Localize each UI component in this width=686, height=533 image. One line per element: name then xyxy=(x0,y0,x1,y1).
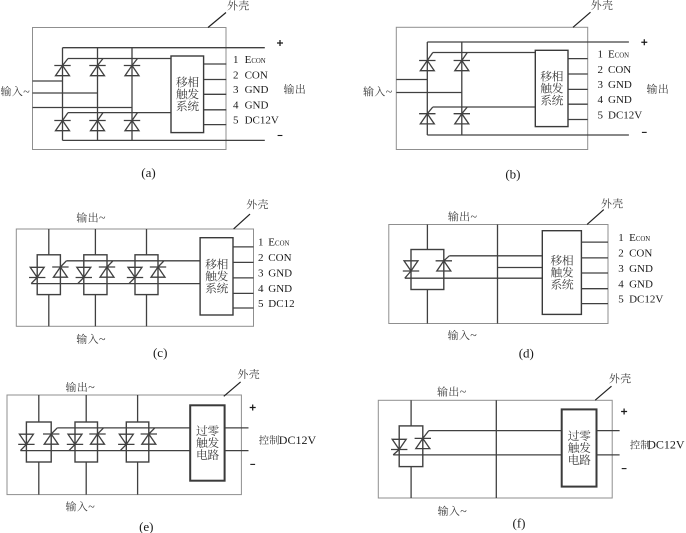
module box pair 2 (e) xyxy=(75,422,98,462)
thyristor reverse VT1 (e) xyxy=(18,434,34,450)
wire top stub pair 2 (c) xyxy=(94,229,96,255)
svg-text:5: 5 xyxy=(258,298,264,310)
svg-text:~: ~ xyxy=(99,332,106,346)
figure (a): three-phase bridge rectifier module xyxy=(1,0,305,180)
module box pair 3 (c) xyxy=(135,255,158,295)
svg-text:5: 5 xyxy=(233,114,239,126)
wire bottom stub pair 3 (e) xyxy=(137,462,139,495)
svg-text:DC12V: DC12V xyxy=(647,438,685,452)
thyristor VT2 (b) xyxy=(454,107,470,124)
pin 5 lead xyxy=(568,119,588,121)
thyristor forward VT4 (e) xyxy=(89,428,105,444)
label input~ (c) xyxy=(77,334,87,344)
svg-text:~: ~ xyxy=(460,504,467,518)
svg-text:2: 2 xyxy=(618,248,624,260)
label output~ (f) xyxy=(437,386,447,396)
wire gate line lower (d) xyxy=(405,277,543,279)
wire input phase B (a) xyxy=(33,92,98,94)
wire top stub pair 3 (c) xyxy=(146,229,148,255)
svg-text:3: 3 xyxy=(598,79,604,91)
svg-text:5: 5 xyxy=(618,293,624,305)
wire bottom stub pair 2 (e) xyxy=(85,462,87,495)
wire phase column 1 (a) xyxy=(62,48,64,141)
svg-text:GND: GND xyxy=(608,94,632,106)
wire column 2 (b) xyxy=(461,42,463,135)
wire upper gate bus (b) xyxy=(433,52,536,54)
wire bottom stub pair 3 (c) xyxy=(146,295,148,327)
svg-text:CON: CON xyxy=(245,69,268,81)
thyristor VT1 (b) xyxy=(419,53,435,71)
terminal + (e) xyxy=(250,405,256,411)
label waike (a) xyxy=(227,0,237,10)
svg-text:2: 2 xyxy=(233,69,239,81)
svg-text:DC12V: DC12V xyxy=(608,109,642,121)
wire top stub pair 1 (e) xyxy=(38,395,40,422)
label input~ (f) xyxy=(438,506,448,516)
module box pair 1 (c) xyxy=(37,255,60,295)
wire control - line (e) xyxy=(225,450,249,452)
thyristor forward VT2 (c) xyxy=(52,261,68,277)
trigger block U1 (f) 过零触发电路 xyxy=(562,409,597,486)
thyristor forward VT6 (e) xyxy=(141,428,157,444)
enclosure leader line (f) xyxy=(595,386,611,400)
pin 5 lead xyxy=(581,303,608,305)
thyristor VT2 (a) xyxy=(124,113,140,131)
label output~ (c) xyxy=(77,212,87,222)
svg-text:GND: GND xyxy=(245,84,269,96)
label output (a) xyxy=(284,84,294,94)
pin 3 lead xyxy=(204,93,227,95)
svg-text:(f): (f) xyxy=(513,515,526,530)
trigger block U1 (b) 移相触发系统 xyxy=(535,50,568,126)
enclosure leader line (a) xyxy=(208,13,226,28)
wire mid line (d) xyxy=(498,267,543,269)
svg-text:~: ~ xyxy=(460,385,467,399)
trigger block U1 (e) 过零触发电路 xyxy=(190,405,224,480)
pin 1 lead xyxy=(204,63,227,65)
wire phase column 2 (a) xyxy=(97,48,99,141)
svg-text:4: 4 xyxy=(598,94,604,106)
figure (b): single-phase bridge rectifier module xyxy=(363,0,668,182)
trigger block U1 (d) 移相触发系统 xyxy=(542,231,581,315)
svg-text:GND: GND xyxy=(268,283,292,295)
svg-text:GND: GND xyxy=(268,268,292,280)
terminal - (a) xyxy=(278,135,283,137)
figure (e): three-phase AC switch module, zero-crossing trigger xyxy=(7,369,316,533)
svg-text:5: 5 xyxy=(598,109,604,121)
wire top stub pair 1 (c) xyxy=(48,229,50,255)
wire gate line upper (d) xyxy=(449,255,542,257)
wire input phase A (a) xyxy=(33,80,63,82)
figure (d): single-phase AC switch module, phase-shift trigger xyxy=(389,198,664,360)
pin 1 lead xyxy=(233,246,254,248)
thyristor forward VT2 (f) xyxy=(415,431,431,449)
terminal - (e) xyxy=(250,463,255,465)
thyristor VT3 (b) xyxy=(454,53,470,71)
thyristor VT3 (a) xyxy=(89,59,105,76)
wire bottom stub pair 2 (c) xyxy=(94,295,96,327)
svg-text:(a): (a) xyxy=(141,165,155,180)
terminal + (b) xyxy=(641,39,647,45)
terminal - (b) xyxy=(642,131,647,133)
svg-text:DC12: DC12 xyxy=(268,298,294,310)
label control DC12V (e) xyxy=(259,435,269,445)
pin 1 lead xyxy=(568,58,588,60)
svg-text:DC12V: DC12V xyxy=(245,114,279,126)
wire bottom stub pair 1 (c) xyxy=(48,295,50,327)
svg-text:~: ~ xyxy=(23,84,30,98)
svg-text:~: ~ xyxy=(386,85,393,99)
svg-text:~: ~ xyxy=(471,210,478,224)
terminal - (f) xyxy=(622,468,627,470)
pin 2 lead xyxy=(233,261,254,263)
thyristor reverse VT5 (e) xyxy=(118,434,134,450)
module box pair (d) xyxy=(411,250,444,290)
label input~ (e) xyxy=(66,501,76,511)
enclosure leader line (b) xyxy=(573,12,591,27)
svg-text:~: ~ xyxy=(88,380,95,394)
trigger block U1 (a) 移相触发系统 xyxy=(171,56,204,133)
enclosure box (c) xyxy=(16,229,253,326)
wire phase column 3 (a) xyxy=(131,48,133,141)
svg-text:CON: CON xyxy=(629,248,652,260)
svg-text:GND: GND xyxy=(629,279,653,291)
module box pair (f) xyxy=(399,426,423,467)
enclosure box (d) xyxy=(389,225,608,324)
thyristor forward VT6 (c) xyxy=(150,261,166,277)
wire control + line (f) xyxy=(597,430,620,432)
wire + rail (a) xyxy=(63,47,265,49)
enclosure box (e) xyxy=(7,395,241,495)
svg-text:1: 1 xyxy=(618,232,624,244)
svg-text:1: 1 xyxy=(258,237,264,249)
pin 3 lead xyxy=(233,277,254,279)
thyristor VT4 (b) xyxy=(419,107,435,124)
pin 3 lead xyxy=(581,272,608,274)
wire input line 2 (b) xyxy=(396,92,462,94)
wire bottom stub pair 1 (e) xyxy=(38,462,40,495)
svg-text:~: ~ xyxy=(99,211,106,225)
svg-text:2: 2 xyxy=(258,252,264,264)
trigger block U1 (c) 移相触发系统 xyxy=(200,238,233,315)
svg-text:3: 3 xyxy=(258,268,264,280)
terminal + (a) xyxy=(277,40,283,46)
label input (a) xyxy=(1,86,11,96)
svg-text:(d): (d) xyxy=(519,346,534,361)
pin 4 lead xyxy=(233,292,254,294)
figure (c): three-phase AC switch module, phase-shift trigger xyxy=(16,199,294,360)
wire + rail (b) xyxy=(427,41,629,43)
label waike (c) xyxy=(247,199,257,209)
wire upper gate bus (e) xyxy=(57,427,190,429)
wire top stub (d) xyxy=(426,225,428,250)
wire gate line lower (f) xyxy=(393,454,562,456)
wire input phase C (a) xyxy=(33,107,133,109)
svg-text:~: ~ xyxy=(88,500,95,514)
wire top stub (f) xyxy=(410,400,412,426)
svg-text:1: 1 xyxy=(233,54,239,66)
thyristor reverse VT1 (c) xyxy=(29,267,45,283)
wire gate line upper (f) xyxy=(429,430,562,432)
thyristor VT4 (a) xyxy=(54,113,70,131)
enclosure leader line (d) xyxy=(587,210,604,225)
pin 4 lead xyxy=(204,109,227,111)
wire inner partition (f) xyxy=(495,400,497,498)
svg-text:GND: GND xyxy=(608,79,632,91)
wire input line 1 (b) xyxy=(396,79,427,81)
pin 3 lead xyxy=(568,88,588,90)
svg-text:GND: GND xyxy=(629,263,653,275)
wire inner partition (d) xyxy=(497,225,499,324)
label control DC12V (f) xyxy=(630,440,640,450)
thyristor forward VT2 (d) xyxy=(436,256,452,271)
svg-text:CON: CON xyxy=(268,252,291,264)
label output~ (e) xyxy=(66,382,76,392)
svg-text:(e): (e) xyxy=(139,519,153,533)
pin 4 lead xyxy=(568,103,588,105)
enclosure leader line (e) xyxy=(224,382,241,396)
pin 1 lead xyxy=(581,241,608,243)
thyristor reverse VT1 (f) xyxy=(391,439,407,455)
thyristor VT1 (a) xyxy=(54,59,70,76)
wire bottom stub (f) xyxy=(410,467,412,498)
thyristor reverse VT3 (e) xyxy=(67,434,83,450)
svg-text:DC12V: DC12V xyxy=(279,433,317,447)
svg-text:1: 1 xyxy=(598,48,604,60)
pin 5 lead xyxy=(233,307,254,309)
svg-text:~: ~ xyxy=(470,328,477,342)
pin 2 lead xyxy=(581,257,608,259)
thyristor reverse VT3 (c) xyxy=(76,267,92,283)
wire top stub pair 2 (e) xyxy=(85,395,87,422)
enclosure box (a) xyxy=(33,28,227,150)
label input (b) xyxy=(363,86,373,96)
label waike (b) xyxy=(591,0,601,10)
wire bottom stub (d) xyxy=(426,290,428,324)
wire lower gate bus (a) xyxy=(68,112,171,114)
wire lower gate bus (e) xyxy=(20,450,190,452)
wire control - line (f) xyxy=(597,454,620,456)
module box pair 3 (e) xyxy=(126,422,149,462)
svg-text:GND: GND xyxy=(245,100,269,112)
thyristor VT6 (a) xyxy=(89,113,105,131)
svg-text:DC12V: DC12V xyxy=(629,293,663,305)
svg-text:CON: CON xyxy=(608,64,631,76)
thyristor reverse VT5 (c) xyxy=(127,267,143,283)
svg-text:(c): (c) xyxy=(153,345,167,360)
enclosure box (f) xyxy=(378,400,612,498)
wire upper gate bus (a) xyxy=(68,58,171,60)
svg-text:4: 4 xyxy=(258,283,264,295)
label output~ (d) xyxy=(448,211,458,221)
label output (b) xyxy=(647,84,657,94)
pin 5 lead xyxy=(204,124,227,126)
pin 2 lead xyxy=(204,79,227,81)
figure (f): single-phase AC switch module, zero-crossing trigger xyxy=(378,373,685,530)
enclosure leader line (c) xyxy=(234,214,250,229)
thyristor forward VT2 (e) xyxy=(43,428,59,444)
label waike (d) xyxy=(601,198,611,208)
module box pair 1 (e) xyxy=(26,422,51,462)
wire lower gate bus (b) xyxy=(433,106,536,108)
thyristor reverse VT1 (d) xyxy=(403,261,419,278)
svg-text:4: 4 xyxy=(618,279,624,291)
terminal + (f) xyxy=(621,409,627,415)
wire column 1 (b) xyxy=(426,42,428,135)
wire upper gate bus (c) xyxy=(66,260,200,262)
pin 4 lead xyxy=(581,288,608,290)
wire lower gate bus (c) xyxy=(31,283,200,285)
module box pair 2 (c) xyxy=(84,255,107,295)
wire control + line (e) xyxy=(225,427,249,429)
wire top stub pair 3 (e) xyxy=(137,395,139,422)
svg-text:2: 2 xyxy=(598,64,604,76)
thyristor forward VT4 (c) xyxy=(99,261,115,277)
enclosure box (b) xyxy=(396,27,587,149)
svg-text:3: 3 xyxy=(618,263,624,275)
pin 2 lead xyxy=(568,73,588,75)
label waike (e) xyxy=(238,369,248,379)
wire - rail (a) xyxy=(63,139,265,141)
label waike (f) xyxy=(609,373,619,383)
thyristor VT5 (a) xyxy=(124,59,140,76)
svg-text:(b): (b) xyxy=(505,167,520,182)
svg-text:4: 4 xyxy=(233,100,239,112)
label input~ (d) xyxy=(448,330,458,340)
svg-text:3: 3 xyxy=(233,84,239,96)
wire - rail (b) xyxy=(427,134,629,136)
